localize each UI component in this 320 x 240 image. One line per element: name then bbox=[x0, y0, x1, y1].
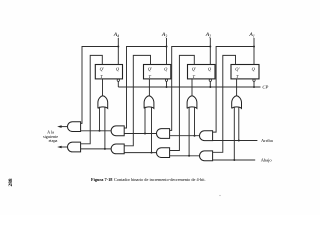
wire Q of U4 (A1 net): up to label, left along top, down to AND top input bbox=[213, 38, 254, 132]
svg-text:288: 288 bbox=[8, 178, 14, 186]
wire OR G2 left leg to segment C bbox=[144, 107, 146, 134]
wire Q-bar of U1: hook left and down to AND top input bbox=[81, 55, 103, 143]
svg-text:Figura 7-18: Figura 7-18 bbox=[91, 177, 112, 182]
wire Q-bar of U4: hook left and down to AND top input bbox=[213, 55, 236, 152]
wire T1 (OR G1 output to U1 T input) bbox=[102, 79, 104, 96]
wire down-chain segment D (G10 out to G8 lower input) bbox=[124, 152, 156, 154]
AND gate G6 (down-chain out to next stage) bbox=[68, 142, 81, 152]
wire Q of U3 (A2 net): up to label, left along top, down to AND top input bbox=[170, 38, 211, 130]
svg-text:Arriba: Arriba bbox=[261, 138, 273, 143]
flip-flop U1 (A4) bbox=[95, 65, 122, 82]
label A la siguiente etapa bbox=[43, 130, 58, 143]
svg-text:T: T bbox=[149, 74, 152, 79]
flip-flop U2 (A3) bbox=[144, 65, 171, 82]
wire OR G1 right leg to segment B bbox=[104, 107, 106, 149]
wire T2 (OR G2 output to U2 T input) bbox=[148, 79, 150, 96]
svg-text:Q′: Q′ bbox=[100, 67, 105, 72]
wire OR G2 right leg to segment D bbox=[151, 107, 153, 153]
wire OR G1 left leg to segment A bbox=[99, 107, 101, 131]
wire Q-bar of U2: hook left and down to AND top input bbox=[124, 55, 150, 145]
svg-text:Q: Q bbox=[164, 67, 168, 72]
AND gate G12 (down-chain, feeds G3) bbox=[200, 151, 213, 161]
svg-text:A3: A3 bbox=[161, 32, 167, 38]
wire up-chain segment A (G7 out to G5 lower input) bbox=[81, 130, 112, 132]
wire OR G3 right leg to segment E bbox=[194, 107, 196, 136]
svg-text:T: T bbox=[236, 74, 239, 79]
svg-text:T: T bbox=[100, 74, 103, 79]
wire Q of U2 (A3 net): up to label, left along top, down to AND top input bbox=[124, 38, 166, 128]
wire down-chain segment B (G8 out to G6 lower input) bbox=[81, 148, 112, 150]
svg-text:CP: CP bbox=[262, 85, 268, 90]
wire down-chain segment F (G12 out to G10 lower input) bbox=[170, 155, 200, 157]
OR gate G1 (T of U1) bbox=[98, 96, 108, 109]
wire Q of U1 (A4 net): up to label, left along top, down to AND top input bbox=[81, 38, 119, 123]
OR gate G2 (T of U2) bbox=[144, 96, 154, 109]
OR gate G3 (T of U3) bbox=[187, 96, 197, 109]
svg-text:A2: A2 bbox=[205, 32, 211, 38]
wire arrow to next stage (down-chain, from G6) bbox=[57, 146, 68, 149]
svg-text:Q: Q bbox=[252, 67, 256, 72]
wire arrow to next stage (up-chain, from G5) bbox=[57, 125, 68, 128]
AND gate G10 (down-chain, feeds G2) bbox=[156, 148, 169, 158]
caption Figura 7-18 bbox=[91, 177, 206, 182]
svg-text:Q′: Q′ bbox=[192, 67, 197, 72]
AND gate G8 (down-chain, feeds G1) bbox=[111, 144, 124, 154]
svg-text:Q: Q bbox=[208, 67, 212, 72]
AND gate G5 (up-chain out to next stage) bbox=[68, 122, 81, 132]
wire Arriba (count-up) input line bbox=[213, 140, 258, 142]
flip-flop U4 (A1) bbox=[231, 65, 259, 82]
AND gate G7 (up-chain, feeds G1) bbox=[111, 126, 124, 136]
svg-text:A1: A1 bbox=[248, 32, 254, 38]
svg-text:Contador binario de incremento: Contador binario de incremento-decrement… bbox=[114, 177, 206, 182]
svg-text:Q′: Q′ bbox=[148, 67, 153, 72]
AND gate G9 (up-chain, feeds G2) bbox=[157, 129, 170, 139]
wire T4 (OR G4 output to U4 T input) bbox=[236, 79, 238, 96]
wire Q-bar of U3: hook left and down to AND top input bbox=[170, 55, 195, 150]
wire up-chain segment E (G11 out to G9 lower input) bbox=[170, 135, 200, 137]
wire Abajo (count-down) input line bbox=[213, 159, 256, 161]
svg-text:etapa: etapa bbox=[49, 138, 58, 143]
wire OR G3 left leg to segment F bbox=[188, 107, 190, 156]
svg-text:T: T bbox=[193, 74, 196, 79]
svg-text:Q′: Q′ bbox=[235, 67, 240, 72]
wire up-chain segment C (G9 out to G7 lower input) bbox=[124, 133, 156, 135]
OR gate G4 (T of U4) bbox=[232, 96, 242, 109]
wire T3 (OR G3 output to U3 T input) bbox=[191, 79, 193, 96]
flip-flop U3 (A2) bbox=[188, 65, 216, 82]
svg-text:A4: A4 bbox=[113, 32, 119, 38]
wire OR G4 right leg to Arriba line bbox=[238, 107, 240, 141]
wire OR G4 left leg to Abajo line bbox=[233, 107, 235, 160]
svg-text:Abajo: Abajo bbox=[261, 158, 273, 163]
wire CP clock rail with clock stems of U1-U4 bbox=[118, 81, 260, 87]
AND gate G11 (up-chain, feeds G3) bbox=[199, 131, 212, 141]
svg-text:Q: Q bbox=[116, 67, 120, 72]
node junction dots bbox=[99, 46, 256, 162]
speck artifact bbox=[219, 195, 220, 196]
